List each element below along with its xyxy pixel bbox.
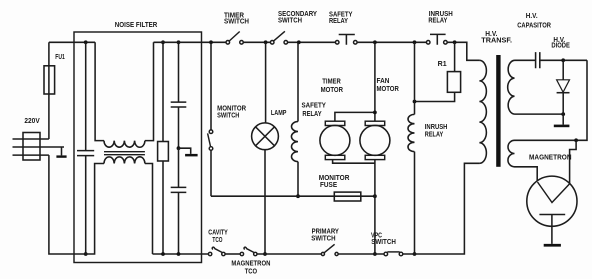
inrush relay contact xyxy=(426,34,447,44)
filament top wire xyxy=(515,139,577,141)
junction node xyxy=(264,40,268,44)
ground (Y-cap midpoint) xyxy=(179,148,198,156)
wire right edge xyxy=(576,60,587,140)
capacitor HV xyxy=(536,52,540,68)
junction node xyxy=(561,112,565,116)
transformer primary winding xyxy=(479,60,486,163)
junction node xyxy=(373,194,377,198)
junction node xyxy=(373,111,377,115)
inrush relay coil xyxy=(408,42,415,254)
svg-text:MONITOR: MONITOR xyxy=(319,175,350,182)
junction node xyxy=(209,40,213,44)
svg-text:RELAY: RELAY xyxy=(425,131,444,138)
svg-text:SWITCH: SWITCH xyxy=(311,235,335,242)
junction node xyxy=(177,40,181,44)
motors feed wire xyxy=(335,42,375,121)
transformer core xyxy=(496,55,500,167)
svg-text:CAVITY: CAVITY xyxy=(208,230,228,237)
wire rail right segment up to transformer xyxy=(403,163,480,254)
inductor L1 (choke top winding) xyxy=(104,141,145,148)
svg-text:FUSE: FUSE xyxy=(320,182,337,189)
cavity TCO xyxy=(208,247,225,256)
junction node xyxy=(297,40,301,44)
svg-text:SAFETY: SAFETY xyxy=(302,102,327,109)
svg-text:FAN: FAN xyxy=(377,78,390,85)
VPC switch xyxy=(384,252,403,256)
capacitor C1 (X-cap across line) xyxy=(77,42,94,254)
safety relay contact xyxy=(335,35,357,45)
svg-text:INRUSH: INRUSH xyxy=(425,124,448,131)
capacitor C2 (upper Y-cap) xyxy=(171,42,187,148)
junction node xyxy=(574,138,578,142)
svg-text:MAGNETRON: MAGNETRON xyxy=(231,261,270,268)
HV capacitor wire xyxy=(515,59,588,61)
svg-text:MAGNETRON: MAGNETRON xyxy=(529,155,572,162)
safety relay coil line xyxy=(297,42,299,121)
junction node xyxy=(413,252,417,256)
choke core xyxy=(104,152,145,155)
wire live down to choke xyxy=(95,42,104,140)
svg-text:TCO: TCO xyxy=(212,237,222,244)
svg-text:MONITOR: MONITOR xyxy=(217,105,246,112)
svg-text:TRANSF.: TRANSF. xyxy=(481,38,512,45)
wire rail seg xyxy=(357,41,426,43)
junction node xyxy=(263,252,267,256)
svg-text:CAPASITOR: CAPASITOR xyxy=(517,23,551,30)
resistor R1 xyxy=(415,42,461,101)
wire rail seg xyxy=(338,253,384,255)
svg-text:NOISE FILTER: NOISE FILTER xyxy=(115,22,158,29)
magnetron xyxy=(527,176,577,244)
timer switch xyxy=(226,32,243,45)
junction node xyxy=(561,58,565,62)
junction node xyxy=(296,194,300,198)
wire choke bottom out xyxy=(145,164,153,255)
wire bottom rail mid xyxy=(153,253,209,255)
magnetron TCO xyxy=(240,247,257,256)
ground (HV return) xyxy=(554,125,570,128)
wire neutral from plug through choke xyxy=(49,155,104,254)
svg-text:FU1: FU1 xyxy=(55,54,65,61)
inductor L2 (choke bottom winding) xyxy=(104,157,145,164)
noise filter box xyxy=(74,32,202,263)
monitor fuse line xyxy=(211,195,375,197)
ground (mains earth) xyxy=(56,147,66,158)
secondary bottom wire xyxy=(515,113,564,115)
svg-text:DIODE: DIODE xyxy=(551,43,570,50)
wire rail to transformer primary xyxy=(447,42,479,60)
resistor R (discharge) xyxy=(158,42,169,254)
svg-text:RELAY: RELAY xyxy=(302,111,321,118)
primary switch xyxy=(321,244,338,255)
wire rail seg xyxy=(257,253,321,255)
svg-text:H.V.: H.V. xyxy=(526,13,538,20)
svg-text:TIMER: TIMER xyxy=(322,79,341,86)
junction node xyxy=(84,40,88,44)
transformer filament winding xyxy=(508,140,515,167)
wire top rail to timer switch xyxy=(154,41,227,43)
junction node xyxy=(84,252,88,256)
svg-text:SWITCH: SWITCH xyxy=(217,112,239,119)
wire rail seg xyxy=(243,41,270,43)
wire rail seg xyxy=(288,41,336,43)
svg-text:R1: R1 xyxy=(438,61,447,68)
junction node xyxy=(373,252,377,256)
secondary switch xyxy=(270,31,287,44)
svg-text:RELAY: RELAY xyxy=(329,18,348,25)
lamp xyxy=(252,123,279,150)
junction node xyxy=(161,40,165,44)
svg-text:RELAY: RELAY xyxy=(428,18,447,25)
transformer secondary HV winding xyxy=(508,60,515,114)
monitor switch xyxy=(208,42,213,196)
wire choke top out to rail xyxy=(145,42,154,140)
junction node xyxy=(413,40,417,44)
junction node xyxy=(373,40,377,44)
plug 220V xyxy=(13,133,65,161)
svg-text:TCO: TCO xyxy=(245,269,258,276)
diode HV xyxy=(557,60,570,124)
wire live up through fuse xyxy=(48,42,50,139)
filament bottom wire xyxy=(515,167,538,182)
lamp line xyxy=(264,42,267,254)
junction node xyxy=(177,146,181,150)
junction node xyxy=(177,252,181,256)
svg-text:220V: 220V xyxy=(24,118,40,125)
wire magnetron right feed xyxy=(570,140,577,184)
timer motor M1 xyxy=(320,121,375,163)
svg-text:MOTOR: MOTOR xyxy=(321,87,343,94)
fan motor M2 xyxy=(360,121,390,254)
fuse FU1 xyxy=(44,66,55,94)
svg-text:SWITCH: SWITCH xyxy=(278,18,302,25)
svg-text:SWITCH: SWITCH xyxy=(224,19,249,26)
monitor fuse xyxy=(334,192,361,201)
junction node xyxy=(161,252,165,256)
svg-text:SWITCH: SWITCH xyxy=(371,239,396,246)
svg-text:MOTOR: MOTOR xyxy=(377,86,399,93)
wire rail seg xyxy=(225,253,240,255)
junction node xyxy=(413,100,417,104)
svg-text:LAMP: LAMP xyxy=(271,110,287,117)
capacitor C3 (lower Y-cap) xyxy=(171,148,187,254)
junction node xyxy=(453,40,457,44)
safety relay coil xyxy=(291,122,298,162)
wire top rail left segment xyxy=(49,41,95,43)
ground (magnetron) xyxy=(544,244,561,247)
